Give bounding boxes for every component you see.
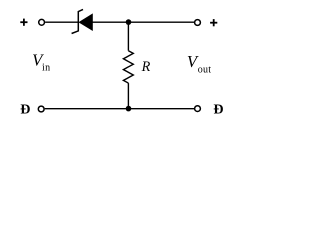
plus sign top-right	[210, 19, 217, 26]
terminal circle top-right	[195, 20, 201, 26]
label V_out	[187, 52, 211, 76]
wire bottom-left segment	[45, 108, 129, 110]
svg-text:Đ: Đ	[213, 102, 223, 117]
zener diode D1 (cathode bar with bent tails, triangle pointing left)	[72, 9, 93, 33]
svg-text:in: in	[42, 63, 51, 74]
wire bottom-right segment	[129, 108, 195, 110]
wire top-middle segment (diode to junction)	[92, 21, 129, 23]
wire vertical upper (top junction to resistor)	[127, 22, 129, 51]
plus sign top-left	[20, 19, 27, 26]
node junction bottom	[126, 106, 132, 112]
terminal circle bottom-right	[195, 106, 201, 112]
wire top-right segment (junction to terminal)	[129, 21, 195, 23]
wire top-left segment	[45, 21, 78, 23]
node junction top	[126, 19, 132, 25]
wire vertical lower (resistor to bottom junction)	[127, 83, 129, 109]
label V_in	[32, 51, 50, 74]
terminal circle bottom-left	[38, 106, 44, 112]
terminal circle top-left	[39, 19, 45, 25]
resistor R zigzag	[123, 51, 133, 83]
svg-text:out: out	[198, 65, 212, 76]
svg-text:R: R	[141, 59, 151, 75]
svg-text:Đ: Đ	[20, 103, 30, 118]
